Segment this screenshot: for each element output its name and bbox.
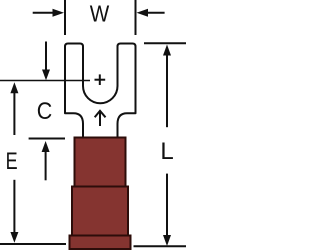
svg-text:W: W xyxy=(90,1,110,27)
svg-text:C: C xyxy=(37,98,53,125)
svg-text:L: L xyxy=(160,138,173,165)
svg-text:E: E xyxy=(6,148,18,175)
